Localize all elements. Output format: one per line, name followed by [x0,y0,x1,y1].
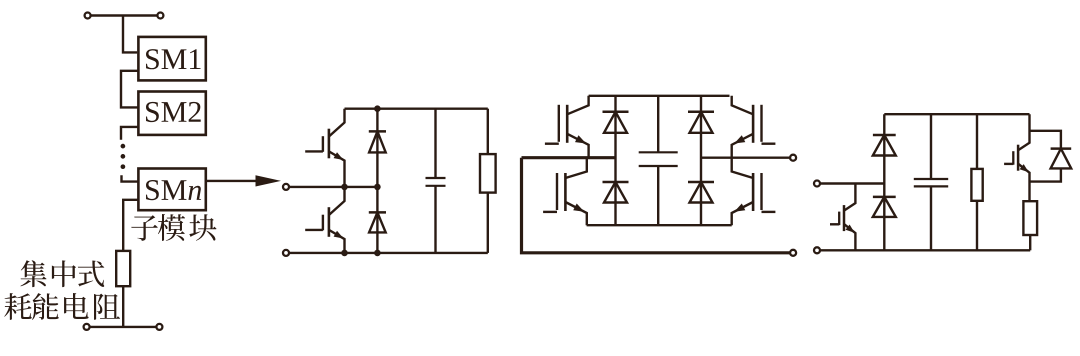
resistor centralized dissipating [116,251,130,286]
submodule SMn [138,169,205,211]
IGBT T3 (circuit2 top-right) [732,96,776,158]
capacitor C (circuit1) [426,109,446,253]
diode D3 (circuit3 clamp) [1051,149,1072,169]
circuit3 clamp diode branch wire [1030,131,1061,182]
circuit1 top rail [345,107,488,109]
diode D1 (circuit3 upper) [873,135,896,156]
diode D2 (circuit3 lower) [873,197,896,217]
circuit3 top rail [884,113,1029,115]
wire bus to SM1 [123,16,137,53]
circuit1 bottom terminal [283,250,488,256]
terminal line bottom (DC-) [84,324,163,330]
circuit2 right mid terminal [790,155,796,161]
resistor R (circuit1) [480,109,496,253]
submodule SM2 [138,92,205,135]
IGBT T1 (circuit2 top-left) [545,96,589,158]
label 集中式 [20,260,104,287]
diode D2 (circuit1 lower) [369,212,386,232]
capacitor C (circuit3) [914,114,948,250]
circuit3 input terminal top [814,181,884,187]
resistor R2 (circuit3) [1023,201,1037,250]
diode D1 (circuit1 upper) [369,131,386,152]
wire to SMn [122,175,139,181]
circuit2 bottom-right terminal [790,250,796,256]
label 子模块 [131,214,216,241]
circuit2 left wrap wire (thick) [522,158,791,253]
wire resistor to bottom [122,286,124,327]
IGBT T2 (circuit1 lower) [305,187,344,253]
circuit2 top rail [589,95,730,97]
wire SM2 down [121,127,138,140]
capacitor C (circuit2) [639,96,678,225]
IGBT T1 (circuit3 left) [830,184,855,251]
diode D1 (circuit2 top-left) [603,112,629,133]
resistor R1 (circuit3) [971,114,982,250]
arrow SMn to circuit 1 [206,175,281,186]
circuit3 input terminal bottom / bottom rail [814,247,1030,253]
circuit1 diode column wire [376,109,378,253]
IGBT T4 (circuit2 bottom-right) [732,158,776,226]
label 耗能电阻 [4,293,120,320]
diode D3 (circuit2 top-right) [688,112,714,133]
circuit2 right midrail [701,156,790,158]
circuit2 left midrail (thick) [522,156,616,159]
IGBT T1 (circuit1 upper) [305,109,344,187]
circuit2 right diode column wire [700,96,702,225]
circuit2 left diode column wire [614,96,616,225]
IGBT T2 (circuit3 right) [1004,114,1029,201]
diode D2 (circuit2 bottom-left) [603,182,629,203]
junction dots circuit1 [341,105,381,256]
circuit2 bottom rail [587,224,732,226]
submodule SM1 [138,37,205,81]
IGBT T2 (circuit2 bottom-left) [543,158,587,226]
ellipsis dots [121,144,126,169]
wire SM1 to SM2 [121,71,138,108]
wire SMn to resistor [123,200,138,251]
circuit3 left diode column wire [883,114,885,250]
circuit1 AC input terminal [283,184,377,190]
diode D4 (circuit2 bottom-right) [688,182,714,203]
terminal line top (DC+) [85,13,164,19]
